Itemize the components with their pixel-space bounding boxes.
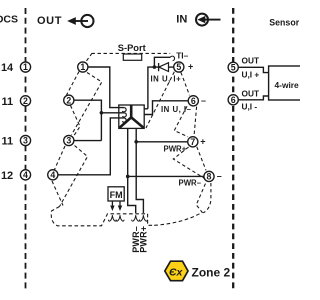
dashed alt path node1-node2 [67,72,80,96]
node 3 left [20,135,30,145]
svg-text:4-wire: 4-wire [275,80,300,90]
svg-text:U,I -: U,I - [242,102,258,112]
dashed alt path node6-vertex-node7 [174,106,188,137]
socket contact PWR- [132,215,140,221]
svg-text:5: 5 [176,62,181,72]
node numbers [23,62,236,181]
socket contact PWR+ [139,215,147,221]
FM arrow left [111,201,113,206]
S-Port dashed line [92,52,171,54]
svg-text:1: 1 [23,62,28,72]
svg-text:Sensor: Sensor [269,17,299,27]
dashed alt path node6-node7 direct [194,107,197,137]
dashed alt path node2-vertex-node3 [71,106,81,136]
dashed alt path node5 to box corner [146,72,174,128]
svg-text:PWR+: PWR+ [164,145,187,154]
wire PWR+ vertical [136,128,143,213]
dashed alt path node5-node6 [181,72,190,95]
wire PWR- vertical [128,128,136,213]
svg-text:2: 2 [66,95,71,105]
wire to node8 [128,175,205,177]
svg-text:Єx: Єx [169,267,184,279]
dashed alt path node7-vertex-node8 [173,147,204,178]
dashed alt path node4-rail [52,181,63,206]
isolator U1 box [119,105,144,128]
svg-text:3: 3 [23,136,28,146]
svg-text:TI–: TI– [176,50,188,60]
dashed link node 1 to S-Port [87,54,92,61]
svg-text:2: 2 [23,96,28,106]
sensor boundary dashed line [232,8,234,291]
svg-text:FM: FM [110,190,123,200]
node 1 left [20,62,30,72]
node circles left column [20,62,238,182]
junction dot C [134,140,138,144]
FM box [108,187,124,201]
node 3 module [64,135,74,145]
S-Port box [123,54,141,60]
svg-text:S-Port: S-Port [118,43,146,53]
wire terminal4 to module [58,118,124,175]
node 8 module [204,171,214,181]
svg-text:1: 1 [80,62,85,72]
socket contact 2 [116,215,124,221]
svg-text:4: 4 [23,170,28,180]
wire terminal2 [74,100,101,140]
Ex zone badge [165,261,188,281]
dashed alt path node7-node8 direct [197,147,206,171]
svg-text:6: 6 [231,95,236,105]
FM arrow right [119,201,121,206]
input hook lower [122,118,126,122]
svg-text:OUT: OUT [242,56,260,66]
svg-text:IN U, I+: IN U, I+ [151,74,182,83]
dashed alt path node3-node4 [55,146,66,170]
svg-text:PWR–: PWR– [179,178,202,187]
svg-text:IN U, I–: IN U, I– [161,105,192,114]
wire sensor node6 to 4-wire box [239,96,269,100]
node 1 module [78,62,88,72]
socket contact 1 [108,215,116,221]
svg-text:12: 12 [1,170,13,182]
input hook middle [122,113,126,117]
svg-text:7: 7 [190,137,195,147]
junction dot D [126,175,130,179]
junction dot A [100,111,104,115]
svg-text:–: – [201,96,206,106]
svg-text:OUT: OUT [37,15,62,27]
svg-text:Zone 2: Zone 2 [192,265,231,279]
dashed alt path node1-bend-node3 [72,73,102,135]
junction dot B [153,65,157,69]
svg-text:IN: IN [176,14,187,26]
isolator symbol [120,105,144,128]
svg-text:+: + [188,61,193,71]
wire sensor node5 to 4-wire box [239,67,269,72]
node 2 left [20,96,30,106]
dashed rail right end [148,214,155,226]
node 5 module [174,62,184,72]
wire junction to lower input [101,112,124,114]
node 6 module [188,96,198,106]
svg-text:11: 11 [2,96,14,108]
svg-text:3: 3 [66,136,71,146]
node 5 sensor [228,62,238,72]
node 7 module [188,137,198,147]
svg-text:11: 11 [2,136,14,148]
svg-text:+: + [200,137,205,147]
TI- test point wire [154,57,170,67]
svg-text:5: 5 [231,63,236,73]
dashed lens below node8 [196,183,206,213]
DCS boundary dashed line [25,8,27,290]
svg-text:14: 14 [1,62,14,74]
svg-text:U,I +: U,I + [242,69,260,79]
node 4 module [48,170,58,180]
wire terminal3 [74,140,101,142]
svg-text:8: 8 [207,172,212,182]
svg-text:4: 4 [50,170,55,180]
node 6 sensor [228,95,238,105]
svg-text:DCS: DCS [0,13,18,25]
node 4 left [20,170,30,180]
wire box to node6 [144,101,188,115]
dashed connector rail [51,207,147,226]
input hook upper [122,108,126,112]
svg-text:OUT: OUT [242,89,260,99]
4-wire sensor box [269,66,303,100]
diode D1 [158,63,160,71]
wire to node7 [136,141,187,143]
node 2 module [64,95,74,105]
TI- hook [170,56,174,61]
wire box to diode node5 [144,67,158,109]
dashed alt path node3-bend-rail [60,146,88,207]
svg-text:–: – [217,171,222,181]
wire terminal1 to module [88,67,124,108]
svg-text:6: 6 [191,96,196,106]
dashed bus curve to node8 [154,213,202,226]
svg-text:PWR+: PWR+ [139,226,149,253]
